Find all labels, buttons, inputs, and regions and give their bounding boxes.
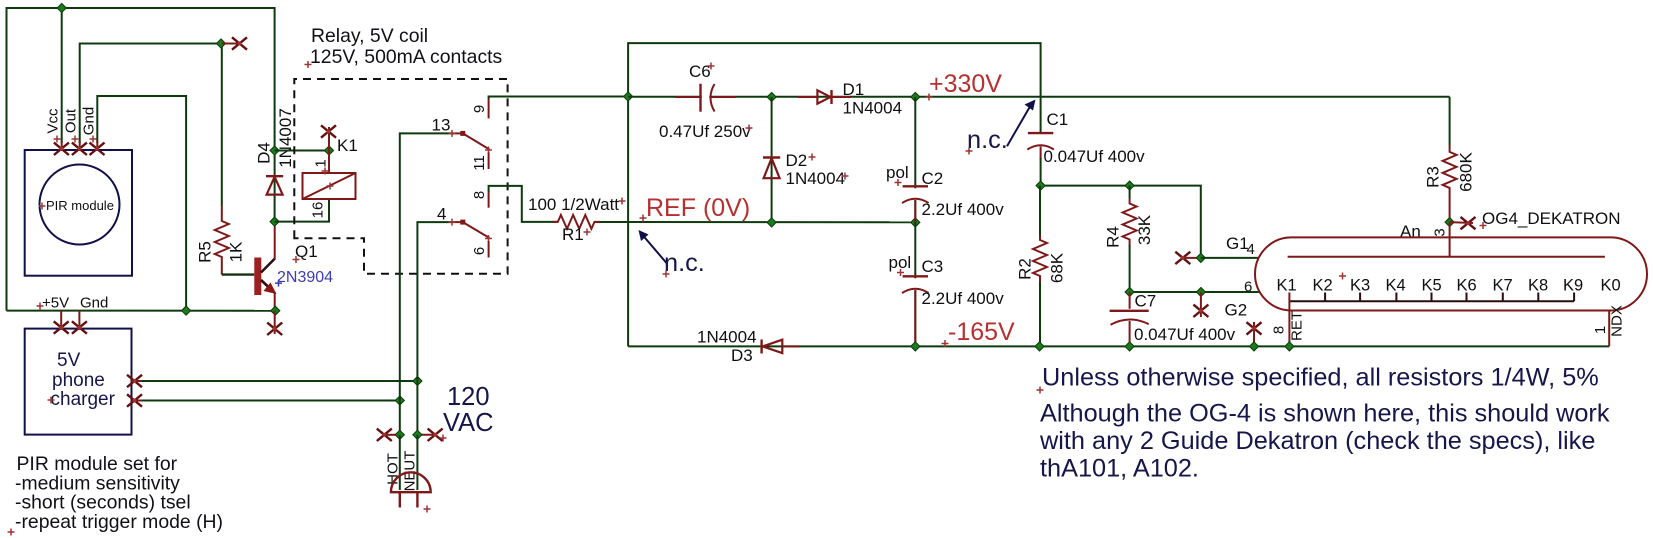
svg-text:C3: C3 — [922, 257, 944, 276]
svg-text:1: 1 — [1592, 326, 1609, 334]
capacitor C1 0.047Uf 400v — [1034, 135, 1049, 146]
no-connect X relay coil stub — [321, 125, 336, 137]
svg-text:-165V: -165V — [948, 318, 1015, 346]
svg-text:n.c.: n.c. — [967, 126, 1008, 154]
anode bar — [1288, 256, 1605, 258]
svg-text:REF (0V): REF (0V) — [646, 194, 750, 222]
wire G1 to bulb — [1201, 257, 1259, 259]
svg-text:K1: K1 — [1277, 277, 1297, 295]
wire collector up — [274, 222, 276, 259]
svg-text:-repeat trigger mode (H): -repeat trigger mode (H) — [15, 511, 223, 533]
pin 8 terminal — [488, 192, 490, 208]
svg-text:C1: C1 — [1047, 110, 1069, 129]
wire G2 row — [1130, 291, 1261, 293]
pin 9 terminal — [488, 99, 490, 118]
svg-text:2N3904: 2N3904 — [277, 269, 333, 286]
no-connect X left of RET — [1247, 322, 1262, 334]
relay contact 13-11 — [453, 132, 463, 134]
pin Vcc stub — [61, 141, 63, 150]
resistor R5 1K — [215, 206, 229, 275]
node C3/-165V junction — [911, 342, 920, 351]
svg-text:C2: C2 — [922, 169, 944, 188]
wire bottom -165V rail — [628, 345, 1609, 347]
pin G2 n.c. stub — [1200, 292, 1202, 317]
svg-text:D1: D1 — [843, 80, 865, 99]
svg-text:16: 16 — [309, 202, 326, 219]
svg-text:Relay, 5V coil: Relay, 5V coil — [311, 25, 428, 47]
capacitor C7 0.047Uf 400v — [1129, 292, 1131, 309]
diode D3 1N4004 — [760, 340, 762, 354]
pin relay coil 1 stub — [328, 151, 330, 174]
svg-text:K3: K3 — [1350, 277, 1370, 295]
svg-text:1N4007: 1N4007 — [276, 108, 295, 168]
PIR module circle — [40, 165, 120, 245]
wire into plug hot — [399, 435, 401, 490]
svg-text:R5: R5 — [195, 241, 214, 263]
node out1/neutral junction — [413, 376, 422, 385]
resistor R1 100 1/2Watt — [552, 221, 558, 223]
node C7 bottom junction — [1125, 342, 1134, 351]
svg-text:HOT: HOT — [384, 453, 401, 485]
svg-text:4: 4 — [437, 205, 446, 224]
svg-text:OG4_DEKATRON: OG4_DEKATRON — [1482, 209, 1621, 228]
svg-text:Although the OG-4 is shown he: Although the OG-4 is shown here, this sh… — [1040, 400, 1610, 428]
svg-text:K1: K1 — [337, 136, 358, 155]
svg-text:2.2Uf 400v: 2.2Uf 400v — [922, 200, 1005, 219]
wire relay pin16 to D4 — [275, 199, 329, 222]
wire base — [222, 273, 255, 275]
arrow n.c. 330 — [1007, 107, 1030, 147]
svg-text:6: 6 — [471, 247, 488, 255]
node D2/REF junction — [767, 218, 776, 227]
svg-text:0.047Uf 400v: 0.047Uf 400v — [1044, 147, 1146, 166]
node R4 top junction — [1125, 181, 1134, 190]
svg-text:+5V: +5V — [42, 295, 69, 312]
svg-text:1: 1 — [312, 159, 329, 167]
no-connect X anode — [1461, 217, 1476, 229]
svg-text:33K: 33K — [1135, 214, 1154, 245]
svg-text:K7: K7 — [1493, 277, 1513, 295]
svg-text:+330V: +330V — [929, 70, 1002, 98]
svg-text:1K: 1K — [226, 241, 245, 262]
node D1/C2 junction — [911, 92, 920, 101]
svg-text:Gnd: Gnd — [80, 295, 108, 312]
wire Vcc drop — [61, 8, 63, 143]
5V phone charger box — [25, 329, 132, 435]
no-connect X Out stub — [232, 37, 247, 49]
wire K1/RET drop — [1288, 293, 1290, 347]
wire emitter down — [274, 292, 276, 311]
relay contact 4-6 — [453, 221, 463, 223]
capacitor C6 0.47Uf 250v — [702, 88, 710, 106]
pin 6 terminal — [488, 241, 490, 258]
pin RET-left n.c. stub — [1253, 322, 1255, 346]
no-connect X vac right — [428, 429, 443, 441]
svg-text:D3: D3 — [731, 346, 753, 365]
svg-text:D4: D4 — [254, 142, 273, 164]
svg-text:with any 2 Guide Dekatron (che: with any 2 Guide Dekatron (check the spe… — [1039, 427, 1595, 455]
wire hot X stub — [384, 434, 400, 436]
svg-text:K6: K6 — [1457, 277, 1477, 295]
svg-text:3: 3 — [1431, 228, 1448, 236]
svg-text:R2: R2 — [1015, 258, 1034, 280]
svg-text:68K: 68K — [1047, 252, 1066, 283]
pin charger out1 stub — [132, 380, 143, 382]
svg-text:C7: C7 — [1135, 292, 1157, 311]
no-connect X PIR Out — [72, 143, 87, 155]
wire R5 top drop — [221, 44, 223, 207]
relay component dashed outline — [294, 79, 507, 274]
svg-text:NDX: NDX — [1608, 305, 1625, 337]
svg-text:G1: G1 — [1226, 234, 1249, 253]
svg-text:thA101, A102.: thA101, A102. — [1040, 454, 1199, 482]
svg-text:6: 6 — [1244, 279, 1252, 296]
pin Gnd stub — [78, 311, 80, 330]
svg-text:K4: K4 — [1386, 277, 1406, 295]
svg-text:100 1/2Watt: 100 1/2Watt — [528, 195, 619, 214]
pin NDX — [1608, 310, 1610, 346]
svg-text:RET: RET — [1288, 311, 1305, 341]
cathode ticks — [1325, 293, 1574, 302]
svg-text:13: 13 — [432, 116, 451, 135]
svg-text:K2: K2 — [1313, 277, 1333, 295]
node vac left junction — [395, 430, 404, 439]
no-connect X G2 — [1193, 305, 1208, 317]
svg-text:680K: 680K — [1456, 151, 1475, 191]
no-connect X charger out1 — [127, 375, 142, 387]
node emitter/rail junction — [271, 306, 280, 315]
pin +5V stub — [60, 311, 62, 330]
svg-text:K9: K9 — [1563, 277, 1583, 295]
node D4 top junction — [270, 146, 279, 155]
resistor R3 680K — [1449, 97, 1451, 145]
node out2/hot junction — [395, 396, 404, 405]
node G2 stub junction — [1196, 287, 1205, 296]
node R2 bottom junction — [1035, 342, 1044, 351]
svg-text:D2: D2 — [786, 151, 808, 170]
dekatron OG4 bulb — [1255, 237, 1647, 310]
wire top bridge pin9 net — [628, 43, 1041, 133]
node Out/R5 junction — [216, 39, 225, 48]
pin charger out2 stub — [132, 400, 143, 402]
wire top rail from PIR Vcc loop — [7, 8, 275, 311]
capacitor C3 2.2Uf 400v — [914, 222, 916, 346]
svg-text:Unless otherwise specified, al: Unless otherwise specified, all resistor… — [1042, 364, 1599, 392]
wire into plug neut — [416, 435, 418, 490]
AC plug symbol — [391, 472, 431, 492]
pin Out stub — [79, 141, 81, 150]
svg-text:R1: R1 — [562, 225, 584, 244]
svg-text:125V, 500mA contacts: 125V, 500mA contacts — [310, 46, 502, 68]
svg-text:R3: R3 — [1423, 166, 1442, 188]
wire PSU left rail — [627, 97, 629, 347]
wire contact 4 feed — [417, 222, 453, 435]
wire contact 13 feed — [400, 133, 453, 434]
node C6/D1/D2 junction — [767, 92, 776, 101]
svg-text:9: 9 — [471, 105, 488, 113]
node relay pin1 junction — [324, 146, 333, 155]
svg-text:1N4004: 1N4004 — [843, 99, 903, 118]
node vac right junction — [413, 430, 422, 439]
wire pin 8 to R1 — [489, 186, 552, 222]
node pin9/C6 junction — [624, 92, 633, 101]
no-connect X charger Gnd — [72, 321, 87, 333]
pin Gnd stub — [96, 141, 98, 150]
svg-text:5V: 5V — [57, 350, 81, 371]
svg-text:8: 8 — [1270, 326, 1287, 334]
no-connect X vac left — [377, 429, 392, 441]
svg-text:phone: phone — [52, 370, 105, 391]
PIR module box — [25, 150, 132, 276]
svg-text:PIR module: PIR module — [46, 198, 114, 213]
wire charger out2 to VAC hot — [142, 400, 400, 402]
wire neut X stub — [417, 434, 436, 436]
node C1/R2 junction — [1036, 181, 1045, 190]
svg-text:K0: K0 — [1601, 277, 1621, 295]
svg-text:11: 11 — [471, 155, 488, 171]
no-connect X G1 — [1175, 252, 1190, 264]
wire Out net — [80, 44, 222, 144]
node R4/C7 junction — [1125, 287, 1134, 296]
svg-text:VAC: VAC — [443, 409, 494, 437]
diode D4 1N4007 — [274, 151, 276, 222]
node D4 bottom junction — [270, 217, 279, 226]
wire Gnd net — [97, 96, 186, 311]
cathode bus — [1289, 300, 1574, 302]
no-connect X emitter stub — [267, 323, 282, 335]
wire anode into bulb — [1449, 222, 1451, 257]
resistor R4 33K — [1129, 186, 1131, 198]
node RET junction — [1285, 342, 1294, 351]
svg-text:NEUT: NEUT — [401, 451, 418, 492]
no-connect X PIR Vcc — [54, 143, 69, 155]
svg-text:R4: R4 — [1103, 226, 1122, 248]
wire charger out1 to VAC neutral — [142, 380, 417, 382]
diode D2 1N4004 — [771, 97, 773, 222]
node C2/C3 REF junction — [911, 218, 920, 227]
wire G1 stub — [1184, 257, 1201, 259]
diode D1 1N4004 — [798, 96, 817, 98]
node Vcc junction — [57, 3, 66, 12]
node Gnd rail junction — [182, 306, 191, 315]
wire pin 9 to PSU — [489, 97, 628, 100]
transistor Q1 2N3904 — [254, 258, 261, 296]
svg-text:charger: charger — [51, 389, 116, 410]
svg-text:G2: G2 — [1225, 301, 1248, 320]
svg-text:Vcc: Vcc — [44, 108, 61, 134]
node anode junction — [1445, 218, 1454, 227]
pin relay coil n.c. stub up — [328, 127, 330, 151]
capacitor C2 2.2Uf 400v — [914, 97, 916, 222]
wire n.c. stub Out — [222, 43, 238, 45]
node G1 junction — [1196, 253, 1205, 262]
pin anode n.c. stub — [1450, 221, 1473, 224]
svg-text:C6: C6 — [689, 62, 711, 81]
no-connect X charger out2 — [127, 394, 142, 406]
svg-text:120: 120 — [447, 383, 490, 411]
svg-text:Q1: Q1 — [295, 242, 318, 261]
svg-text:Out: Out — [62, 108, 79, 133]
svg-text:Gnd: Gnd — [80, 107, 97, 135]
pin 11 terminal — [488, 153, 490, 170]
wire bottom ground rail — [7, 310, 276, 312]
svg-text:4: 4 — [1247, 241, 1255, 258]
svg-text:8: 8 — [471, 191, 488, 199]
resistor R2 68K — [1039, 186, 1041, 235]
node rail junction below X — [1249, 342, 1258, 351]
no-connect X PIR Gnd — [90, 143, 105, 155]
svg-text:2.2Uf 400v: 2.2Uf 400v — [922, 289, 1005, 308]
svg-text:n.c.: n.c. — [664, 249, 705, 277]
svg-text:1N4004: 1N4004 — [697, 328, 757, 347]
arrow n.c. REF — [643, 236, 667, 264]
wire D4 to relay pin1 — [275, 150, 329, 152]
svg-text:1N4004: 1N4004 — [786, 169, 846, 188]
relay coil K1 box — [303, 173, 356, 199]
no-connect X charger +5V — [54, 321, 69, 333]
pin emitter n.c. stub — [274, 311, 276, 334]
svg-text:K8: K8 — [1528, 277, 1548, 295]
svg-text:0.047Uf 400v: 0.047Uf 400v — [1134, 325, 1236, 344]
wire C1 bottom net — [1041, 186, 1201, 258]
wire top inner rail — [628, 96, 1450, 98]
svg-text:K5: K5 — [1422, 277, 1442, 295]
svg-text:0.47Uf 250v: 0.47Uf 250v — [659, 122, 751, 141]
